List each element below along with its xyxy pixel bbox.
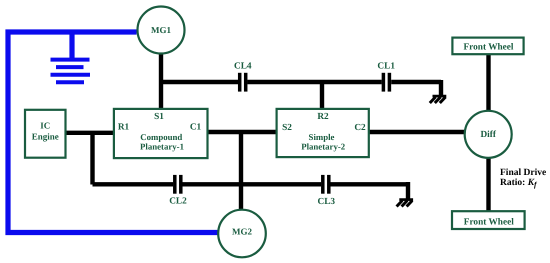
- svg-text:Diff: Diff: [480, 130, 496, 140]
- svg-text:Front Wheel: Front Wheel: [463, 43, 513, 53]
- clutch CL2: [175, 175, 181, 194]
- clutch CL3: [323, 175, 329, 194]
- svg-text:MG1: MG1: [151, 25, 171, 35]
- wire: horizontal shaft from MG1 shaft through CL4 and CL1 to fixed ground: [159, 80, 441, 96]
- wire: Diff to Front Wheel (bottom) axle: [486, 157, 490, 212]
- wire: C1 of Compound Planetary-1 to S2 of Simple Planetary-2: [207, 130, 277, 134]
- svg-text:IC: IC: [40, 120, 50, 130]
- wire: MG1 shaft down to S1 of Compound Planetary-1: [159, 53, 163, 110]
- label CL2: [169, 196, 187, 206]
- svg-text:S1: S1: [154, 112, 164, 122]
- pin S2: [282, 123, 292, 133]
- clutch CL4: [240, 73, 246, 92]
- svg-text:CL3: CL3: [318, 197, 336, 207]
- wire: branch from CL4 shaft down to R2 of Simple Planetary-2: [320, 82, 324, 110]
- wire: branch from C1 shaft down to MG2: [239, 130, 243, 210]
- block: IC Engine: [25, 110, 66, 158]
- label Simple Planetary-2: [301, 132, 346, 151]
- ground: mechanical fixed ground after CL1: [430, 96, 447, 103]
- wire: lower shaft from engine branch through CL2 and CL3 to fixed ground: [93, 182, 409, 199]
- svg-text:S2: S2: [282, 123, 292, 133]
- svg-text:Engine: Engine: [32, 131, 59, 141]
- block: Front Wheel (top): [452, 38, 523, 55]
- svg-text:C2: C2: [354, 123, 366, 133]
- label CL3: [318, 197, 336, 207]
- svg-text:Ratio: Kf: Ratio: Kf: [500, 178, 538, 189]
- wire: IC Engine output shaft to R1: [65, 131, 115, 135]
- label CL1: [377, 62, 395, 72]
- label Final Drive Ratio: Kf: [500, 168, 546, 189]
- block: Compound Planetary-1 gearset: [114, 109, 208, 158]
- ground: blue electrical ground symbol (battery/chassis): [51, 32, 91, 82]
- label CL4: [234, 62, 252, 72]
- svg-text:R1: R1: [118, 123, 130, 133]
- svg-text:CL1: CL1: [377, 62, 395, 72]
- svg-text:CL4: CL4: [234, 62, 252, 72]
- wire: C2 of Simple Planetary-2 to Diff: [369, 130, 466, 134]
- svg-text:R2: R2: [317, 112, 329, 122]
- wire: blue electrical bus from MG1 left, down left side, to MG2: [8, 32, 218, 233]
- pin C2: [354, 123, 366, 133]
- motor-generator MG1: [138, 7, 185, 54]
- pin R1: [118, 123, 130, 133]
- pin S1: [154, 112, 164, 122]
- svg-text:C1: C1: [190, 123, 202, 133]
- block: Front Wheel (bottom): [452, 211, 525, 229]
- svg-text:Front Wheel: Front Wheel: [464, 217, 514, 227]
- pin C1: [190, 123, 202, 133]
- clutch CL1: [383, 73, 389, 92]
- svg-text:MG2: MG2: [232, 227, 252, 237]
- svg-text:CL2: CL2: [169, 196, 187, 206]
- svg-text:Planetary-1: Planetary-1: [140, 141, 184, 151]
- wire: branch from engine shaft down to CL2 shaft: [90, 131, 94, 185]
- wire: Front Wheel (top) axle to Diff: [486, 54, 490, 112]
- svg-text:Planetary-2: Planetary-2: [301, 141, 346, 151]
- ground: mechanical fixed ground after CL3: [397, 200, 414, 207]
- svg-text:Final Drive: Final Drive: [500, 168, 546, 178]
- label Compound Planetary-1: [140, 132, 184, 151]
- differential Diff: [465, 111, 512, 158]
- block: Simple Planetary-2 gearset: [277, 109, 369, 157]
- pin R2: [317, 112, 329, 122]
- motor-generator MG2: [218, 210, 266, 258]
